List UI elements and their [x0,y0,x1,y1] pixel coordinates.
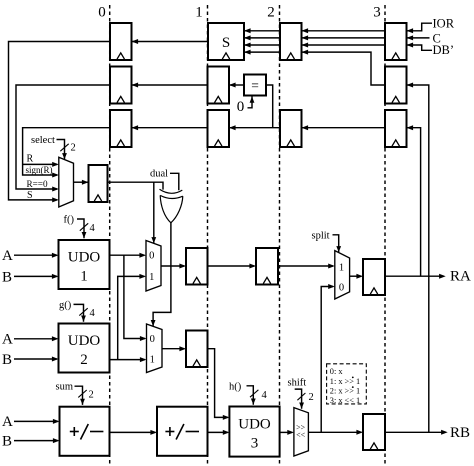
output RA [385,269,471,285]
svg-text:2: 2 [309,392,314,403]
svg-text:2: 2 [71,143,76,154]
svg-text:A: A [2,414,13,430]
wire bus2 stage3reg to stage2reg [302,43,386,48]
svg-text:0: 0 [98,5,106,21]
control g() [59,300,96,322]
svg-text:select: select [31,135,55,146]
stage label 3 [373,5,381,21]
input IOR [407,16,455,33]
wire row1 stage0 reg output to select-mux S input [9,42,111,203]
svg-text:3: 3 [251,436,259,452]
svg-text:S: S [27,190,33,201]
register row2 stage1 [208,67,230,104]
svg-text:1: 1 [149,272,154,283]
wire split mux output to RA register [350,274,363,279]
label R==0 [27,179,48,189]
block add/sub 2 (+/-) [157,407,208,456]
svg-text:IOR: IOR [433,16,455,30]
constant 0 into comparator [237,97,255,115]
mux2 (2:1 after UDO2) [147,324,163,373]
register row3 stage3 [385,110,407,147]
wire UDO3 output to shift mux [280,430,294,435]
wire shift-output tap to split mux input0 [321,284,335,432]
svg-text:4: 4 [90,308,96,319]
label S (select-mux input) [27,190,33,201]
svg-text:0: 0 [339,282,344,293]
stage boundary dashed line 3 [384,5,386,466]
control h() [229,382,268,405]
svg-text:S: S [222,35,230,51]
input B (UDO2) [2,352,59,368]
register stage2 (RA path) [256,248,278,285]
wire bus2 stage2reg to S register [244,43,280,48]
wire UDO2 branch to mux1 input1 [118,274,146,360]
svg-text:sign(R): sign(R) [26,165,53,175]
register row2 stage3 [385,67,407,104]
wire row3 stage3 reg to row3 stage2 reg [302,125,386,130]
input A (UDO1) [2,248,59,264]
wire bus3 (from row2 stage3 reg) to stage2 reg [302,50,386,85]
register S (state register, stage 1) [208,23,244,60]
register row1 stage3 (IOR/C/DB' input register) [385,23,407,60]
svg-text:0: 0 [149,250,154,261]
register row3 stage0 [110,110,132,147]
register row1 stage2 (4-bit) [280,23,302,60]
block add/sub 1 (+/-) [60,407,110,456]
svg-text:1: x >> 1: 1: x >> 1 [330,377,360,386]
svg-text:B: B [2,352,12,368]
wire S register to row1 stage0 reg [132,39,209,44]
wire stage2 reg to split mux input1 [278,264,335,269]
block UDO1 [59,240,110,289]
control dual [150,169,179,191]
control split [312,230,342,252]
control select [31,135,76,159]
wire row3 stage0 reg output to sign(R) input [23,128,110,178]
wire xor output to mux2 select [151,223,171,327]
wire UDO2 output to mux2 input1 [110,357,147,362]
register select (pipeline reg after select mux) [89,165,108,202]
svg-text:B: B [2,433,12,449]
stage label 0 [98,5,106,21]
mux shift (shifter) [294,408,309,456]
svg-text:B: B [2,269,12,285]
wire row2 stage1 reg to row2 stage0 reg [132,83,208,88]
wire bus3 stage2reg to S register [244,50,280,55]
stage label 2 [267,5,275,21]
wire addsub1 to addsub2 [110,430,158,435]
control f() [64,215,96,239]
svg-text:1: 1 [150,355,155,366]
svg-text:shift: shift [288,378,307,389]
svg-text:DB’: DB’ [433,43,455,57]
svg-text:R: R [27,154,34,165]
wire comparator input tap from row3 bus [266,85,273,128]
register after mux2 (stage1) [186,331,208,368]
svg-text:UDO: UDO [68,250,101,266]
label R [27,154,34,165]
legend shift encodings [327,364,367,405]
svg-text:2: x >> 1: 2: x >> 1 [330,387,360,396]
wire shift mux output to RB register [308,430,363,435]
block UDO2 [59,324,110,373]
wire UDO1 output to mux1 input0 [110,253,147,258]
wire row3 stage2 reg to row3 stage1 reg [229,125,280,130]
svg-text:1: 1 [339,263,344,274]
register row1 stage0 [110,23,132,60]
wire R to select-mux R input [23,162,59,167]
svg-text:0: 0 [237,99,245,115]
svg-text:UDO: UDO [68,333,101,349]
stage label 1 [195,5,203,21]
svg-text:A: A [2,332,13,348]
svg-text:f(): f() [64,215,75,226]
svg-text:UDO: UDO [238,417,271,433]
input B (UDO1) [2,269,59,285]
svg-text:RB: RB [450,425,470,441]
register row2 stage0 [110,67,132,104]
wire stage1 reg to stage2 reg [208,264,257,269]
svg-text:sum: sum [56,382,74,393]
svg-text:h(): h() [229,382,242,393]
stage boundary dashed line 0 [109,5,111,466]
svg-text:3: x << 1: 3: x << 1 [330,396,360,405]
svg-text:=: = [251,78,259,93]
comparator U= (equality with 0) [244,75,266,96]
control sum [56,382,94,405]
register row3 stage1 [208,110,230,147]
register after mux1 (stage1) [186,248,208,285]
svg-text:3: 3 [373,5,381,21]
output RB [385,425,470,441]
register RB (stage3) [363,414,385,450]
mux select (4:1) [59,157,74,207]
svg-text:A: A [2,248,13,264]
register row3 stage2 [280,110,302,147]
wire mux2-stage1 reg to UDO3 input1 [208,349,230,420]
svg-text:R==0: R==0 [27,179,48,189]
svg-text:dual: dual [150,169,168,180]
wire row2 stage0 reg output to select-mux R==0 input [16,85,110,192]
svg-text:<<: << [296,430,306,439]
input C [407,32,441,46]
wire bus0 stage3reg to stage2reg [302,28,386,33]
block UDO3 [229,407,279,457]
stage boundary dashed line 2 [279,5,281,466]
svg-text:RA: RA [450,269,471,285]
svg-text:0: 0 [150,334,155,345]
stage boundary dashed line 1 [207,5,209,466]
svg-text:0: x: 0: x [330,367,344,376]
svg-text:1: 1 [80,269,88,285]
input A (+/-) [2,414,60,430]
svg-text:4: 4 [90,223,96,234]
svg-text:split: split [312,230,330,241]
svg-text:4: 4 [262,390,268,401]
xor gate (dual control) [160,189,183,223]
input A (UDO2) [2,332,59,348]
svg-text:2: 2 [89,390,94,401]
svg-text:2: 2 [80,352,88,368]
wire bus1 stage2reg to S register [244,35,280,40]
svg-text:1: 1 [195,5,203,21]
wire equality comparator output to row2 stage1 reg [229,83,244,88]
wire bus1 stage3reg to stage2reg [302,35,386,40]
wire row3 stage1 reg to row3 stage0 reg [132,125,208,130]
wire bus0 stage2reg to S register [244,28,280,33]
wire mux1 output to stage1 register [161,264,186,269]
mux1 (2:1 after UDO1) [146,241,161,292]
wire select register output to xor and mux selects [108,182,164,189]
register RA (stage3) [363,259,385,295]
mux split (2:1) [335,251,350,299]
input DB' [407,43,455,57]
wire select branch to mux1 select [151,182,156,243]
wire UDO1 branch to mux2 input0 [124,255,147,341]
control shift [288,378,314,409]
wire addsub2 to UDO3 input2 [208,430,230,435]
wire RA feedback to row3 stage3 reg [407,125,421,276]
wire mux2 output to stage1 register [162,346,186,351]
wire RB feedback to row2 stage3 reg [407,83,429,433]
label sign(R) [26,165,53,175]
wire select-mux output to select register [74,180,89,185]
svg-text:g(): g() [59,300,72,311]
input B (+/-) [2,433,60,449]
svg-text:2: 2 [267,5,275,21]
